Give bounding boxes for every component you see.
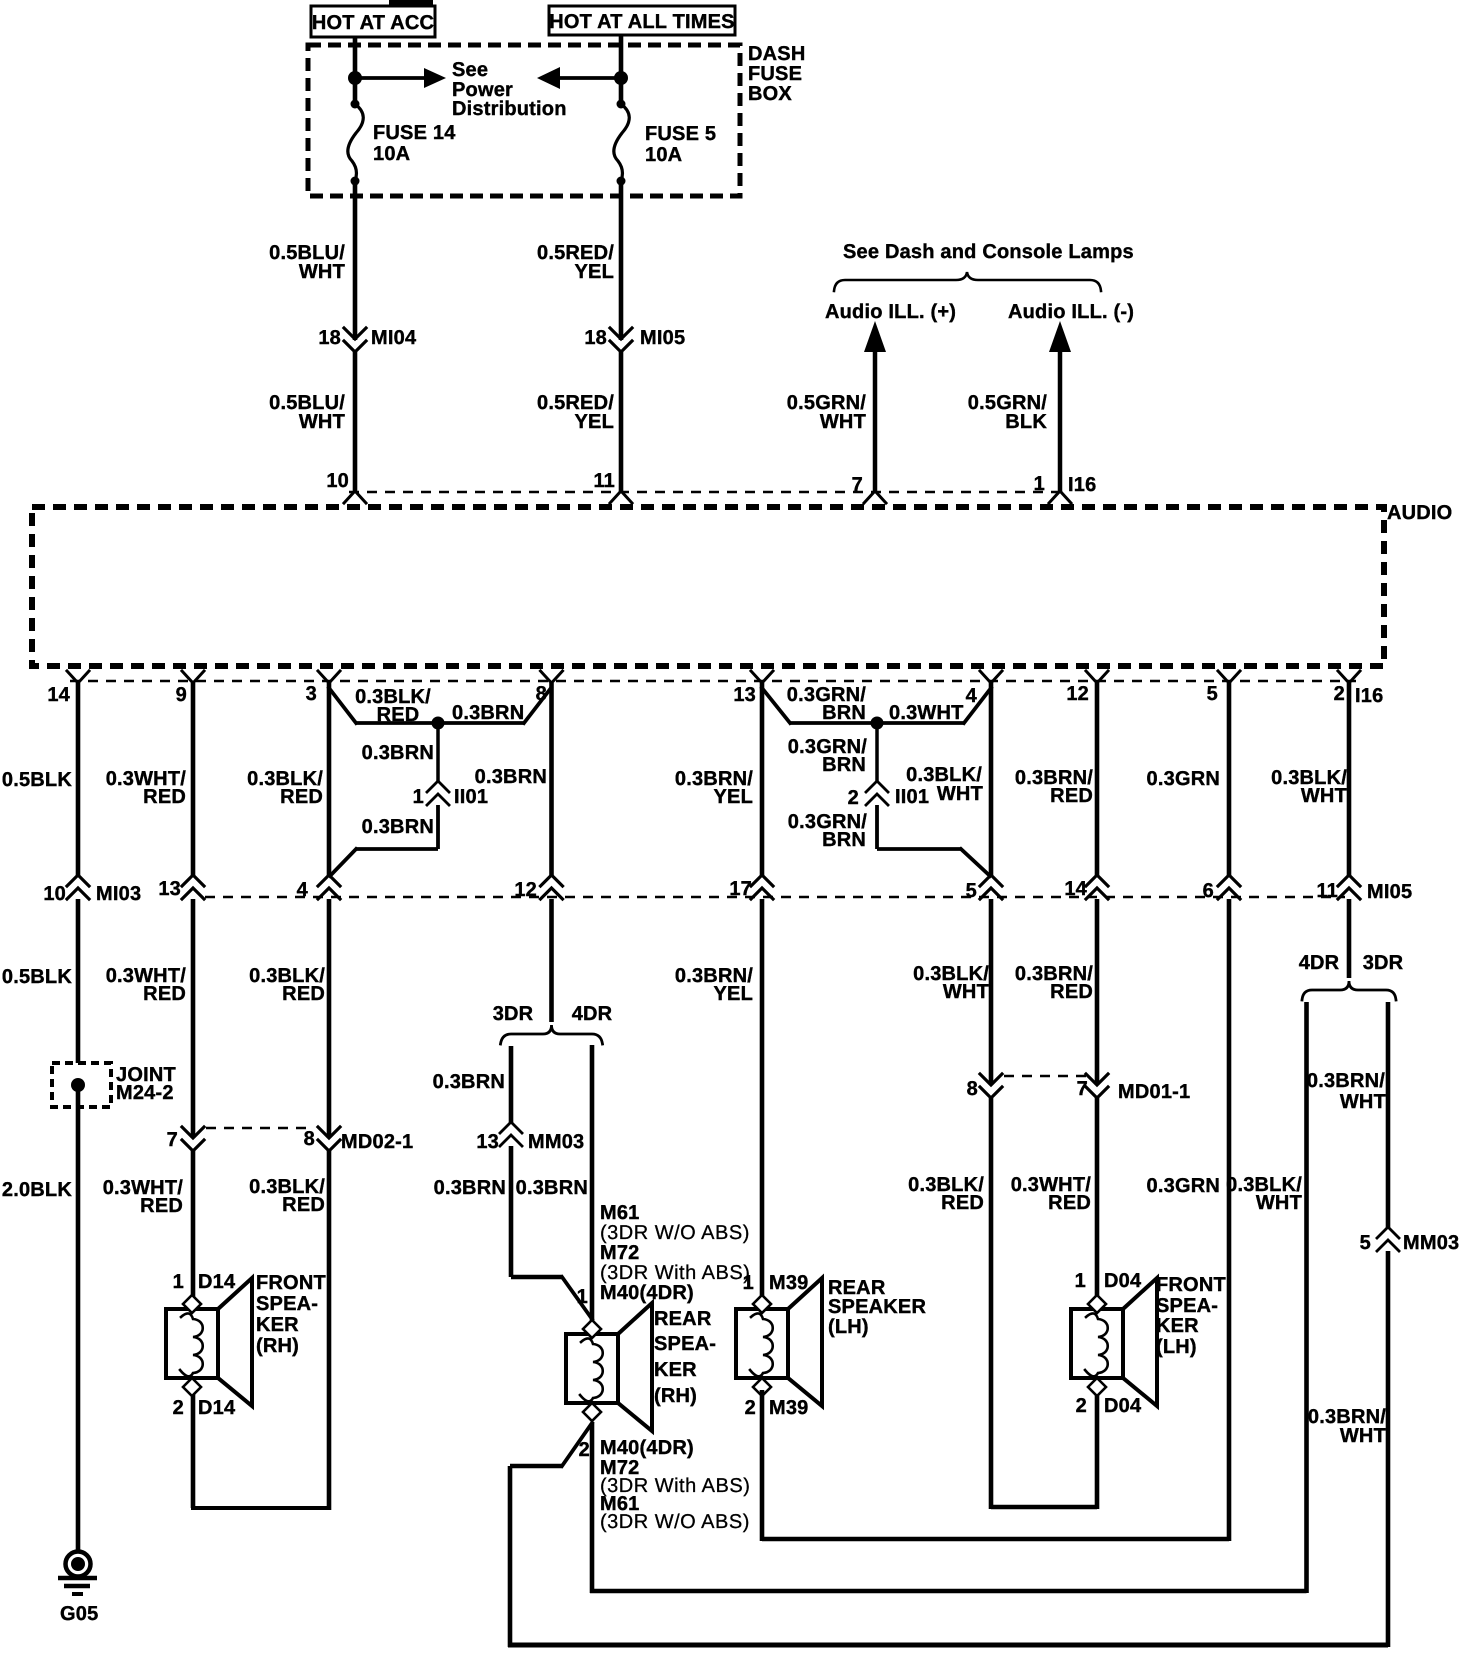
- audio pin 9 connector: [182, 671, 204, 683]
- wire audio pin3 to connector 4: [327, 683, 332, 876]
- power source box HOT AT ACC: [311, 6, 435, 37]
- wire II01 pin2 return to pin5: [875, 805, 879, 849]
- wire audio pin5 to connector 6: [1227, 683, 1232, 876]
- svg-text:(3DR W/O ABS): (3DR W/O ABS): [600, 1511, 750, 1533]
- audio pin 4 connector: [980, 671, 1002, 683]
- scan artifact above HOT AT ACC box: [389, 0, 433, 6]
- connector pin 17: [751, 875, 773, 886]
- wire 4 to MD02-1 pin8: [327, 899, 332, 1138]
- svg-text:12: 12: [1066, 683, 1089, 705]
- wire MI05 to audio unit pin 11: [619, 352, 624, 492]
- svg-text:SPEA-: SPEA-: [256, 1293, 318, 1315]
- wire audio pin14 to MI03: [76, 683, 81, 876]
- wire 13 to MD02-1 pin7: [191, 899, 196, 1138]
- svg-text:M39: M39: [769, 1272, 809, 1294]
- audio pin 3 connector: [318, 671, 340, 683]
- svg-text:WHT: WHT: [299, 261, 345, 283]
- speaker M61/M72/M40 rear speaker RH: [618, 1303, 652, 1431]
- svg-text:7: 7: [852, 474, 863, 496]
- svg-text:SPEA-: SPEA-: [654, 1333, 716, 1355]
- audio pin 14 connector: [67, 671, 89, 683]
- wire 12 to 3DR/4DR split: [549, 899, 554, 1022]
- svg-text:YEL: YEL: [714, 983, 754, 1005]
- audio pin 13 connector: [751, 671, 773, 683]
- wire loop to front speaker RH pin2: [191, 1506, 331, 1510]
- dashed pin row at audio top: [349, 491, 1060, 493]
- svg-text:12: 12: [514, 879, 537, 901]
- audio pin 2 connector I16: [1338, 671, 1360, 683]
- connector MD02-1 pin 8: [318, 1127, 340, 1138]
- svg-text:YEL: YEL: [714, 786, 754, 808]
- wire MD01-1 pin7 to front speaker LH pin1: [1095, 1098, 1100, 1297]
- svg-text:13: 13: [733, 684, 756, 706]
- svg-text:2: 2: [1334, 683, 1345, 705]
- svg-text:0.3BRN/: 0.3BRN/: [1307, 1070, 1385, 1092]
- audio unit dashed box: [32, 507, 1384, 666]
- svg-text:I16: I16: [1068, 474, 1096, 496]
- wire joint M24-2 to ground G05: [76, 1085, 81, 1550]
- wire MD01-1 pin8 down to front speaker LH pin2: [989, 1098, 994, 1509]
- svg-text:I16: I16: [1355, 685, 1383, 707]
- connector pin 12: [541, 875, 563, 886]
- svg-text:(LH): (LH): [828, 1316, 869, 1338]
- connector pin 14: [1086, 875, 1108, 886]
- svg-text:RED: RED: [1050, 785, 1093, 807]
- audio pin 5 connector: [1218, 671, 1240, 683]
- wire audio pin12 to connector 14: [1095, 683, 1100, 876]
- svg-text:WHT: WHT: [937, 783, 983, 805]
- svg-text:0.3GRN: 0.3GRN: [1147, 1175, 1220, 1197]
- svg-text:KER: KER: [1156, 1315, 1199, 1337]
- svg-text:0.3GRN: 0.3GRN: [1147, 768, 1220, 790]
- svg-text:MI04: MI04: [371, 327, 417, 349]
- svg-text:MM03: MM03: [1403, 1232, 1459, 1254]
- svg-text:18: 18: [584, 327, 607, 349]
- svg-text:5: 5: [966, 880, 977, 902]
- svg-text:FRONT: FRONT: [256, 1272, 326, 1294]
- svg-text:WHT: WHT: [1340, 1091, 1386, 1113]
- wire MM03 pin5 down: [1386, 1251, 1391, 1647]
- svg-text:Audio ILL. (+): Audio ILL. (+): [825, 301, 956, 323]
- wire audio pin9 to connector 13: [191, 683, 196, 876]
- svg-text:RED: RED: [143, 983, 186, 1005]
- svg-text:WHT: WHT: [820, 411, 866, 433]
- svg-text:WHT: WHT: [1301, 785, 1347, 807]
- svg-text:13: 13: [158, 878, 181, 900]
- wire MD02-1 pin7 to front speaker RH pin1: [191, 1151, 196, 1297]
- svg-text:HOT AT ACC: HOT AT ACC: [312, 12, 434, 34]
- wire II01 pin1 return to pin4: [436, 805, 440, 849]
- svg-text:(LH): (LH): [1156, 1336, 1197, 1358]
- junction on battery feed: [614, 71, 628, 85]
- svg-text:0.3BRN: 0.3BRN: [433, 1071, 505, 1093]
- svg-text:(RH): (RH): [654, 1385, 697, 1407]
- wire 4DR branch to rear speaker RH pin1: [590, 1045, 595, 1322]
- svg-text:10: 10: [326, 470, 349, 492]
- connector MM03 pin 13: [500, 1122, 522, 1133]
- dashed connector row: [205, 896, 1345, 898]
- svg-text:14: 14: [47, 684, 70, 706]
- svg-text:1: 1: [743, 1272, 754, 1294]
- svg-text:1: 1: [1034, 473, 1045, 495]
- svg-text:2.0BLK: 2.0BLK: [2, 1179, 72, 1201]
- svg-text:KER: KER: [256, 1314, 299, 1336]
- svg-text:BLK: BLK: [1005, 411, 1047, 433]
- audio pin 8 connector: [541, 671, 563, 683]
- svg-text:18: 18: [318, 327, 341, 349]
- svg-text:RED: RED: [282, 983, 325, 1005]
- svg-text:4DR: 4DR: [1299, 952, 1340, 974]
- svg-text:D04: D04: [1104, 1395, 1142, 1417]
- wire MM03 pin13 to rear speaker RH pin1: [509, 1146, 514, 1277]
- svg-text:1: 1: [577, 1286, 588, 1308]
- svg-text:D04: D04: [1104, 1270, 1142, 1292]
- svg-text:AUDIO: AUDIO: [1387, 502, 1452, 524]
- svg-text:RED: RED: [1050, 981, 1093, 1003]
- wire from HOT AT ACC down to fuse 14: [353, 36, 358, 104]
- wire 17 to rear speaker LH pin1: [760, 899, 765, 1297]
- svg-text:KER: KER: [654, 1359, 697, 1381]
- wire rear speaker RH pin2 4DR return: [590, 1423, 595, 1593]
- svg-text:0.3BRN: 0.3BRN: [362, 816, 434, 838]
- svg-text:10A: 10A: [645, 144, 682, 166]
- svg-text:BRN: BRN: [822, 702, 866, 724]
- wire 3DR bottom run: [508, 1643, 1388, 1648]
- svg-text:FUSE 5: FUSE 5: [645, 123, 716, 145]
- svg-text:BOX: BOX: [748, 83, 792, 105]
- wire from HOT AT ALL TIMES down to fuse 5: [619, 34, 624, 104]
- connector MI04 pin 18: [344, 328, 366, 339]
- svg-text:2: 2: [173, 1397, 184, 1419]
- wire MI03 to joint M24-2: [76, 899, 81, 1063]
- svg-text:8: 8: [304, 1128, 315, 1150]
- svg-text:SPEA-: SPEA-: [1156, 1295, 1218, 1317]
- svg-text:RED: RED: [280, 786, 323, 808]
- svg-text:D14: D14: [198, 1271, 236, 1293]
- wire 6 down to rear speaker LH return: [1227, 899, 1232, 1541]
- svg-text:See Dash and Console Lamps: See Dash and Console Lamps: [843, 241, 1134, 263]
- wire MI05 to 4DR/3DR split: [1347, 899, 1352, 978]
- wire MI04 to audio unit pin 10: [353, 352, 358, 492]
- svg-text:8: 8: [967, 1078, 978, 1100]
- fuse F5 element: [617, 100, 626, 109]
- connector pin 13: [182, 875, 204, 886]
- connector MI05 pin 11: [1338, 875, 1360, 886]
- svg-text:0.3BRN: 0.3BRN: [362, 742, 434, 764]
- svg-text:0.3BRN: 0.3BRN: [516, 1177, 588, 1199]
- svg-text:9: 9: [176, 684, 187, 706]
- ground G05 symbol: [66, 1552, 91, 1577]
- svg-text:17: 17: [729, 878, 752, 900]
- svg-text:RED: RED: [941, 1192, 984, 1214]
- wire rear speaker LH pin2 to pin6 column: [760, 1390, 765, 1541]
- svg-text:YEL: YEL: [575, 261, 615, 283]
- svg-text:0.3BRN: 0.3BRN: [434, 1177, 506, 1199]
- fuse F14 element: [351, 100, 360, 109]
- joint M24-2 dashed box: [52, 1063, 111, 1107]
- svg-text:RED: RED: [1048, 1192, 1091, 1214]
- branch pin4 to II01 junction: [964, 688, 991, 723]
- svg-text:M39: M39: [769, 1397, 809, 1419]
- svg-text:0.3BRN: 0.3BRN: [475, 766, 547, 788]
- connector MD01-1 pin 8: [980, 1074, 1002, 1085]
- svg-text:II01: II01: [454, 786, 488, 808]
- brace 4DR/3DR split: [1302, 981, 1396, 1000]
- svg-text:1: 1: [413, 786, 424, 808]
- svg-text:(3DR W/O ABS): (3DR W/O ABS): [600, 1222, 750, 1244]
- connector pin 5: [980, 875, 1002, 886]
- svg-text:FUSE: FUSE: [748, 63, 802, 85]
- svg-text:4: 4: [966, 685, 978, 707]
- svg-text:FRONT: FRONT: [1156, 1274, 1226, 1296]
- connector pin 6: [1218, 875, 1240, 886]
- svg-text:SPEAKER: SPEAKER: [828, 1296, 926, 1318]
- svg-text:5: 5: [1207, 683, 1218, 705]
- arrow up Audio ILL. (+): [864, 321, 886, 352]
- audio pin 10 connector: [344, 491, 366, 503]
- wire junction to II01 pin2: [875, 723, 879, 782]
- svg-text:11: 11: [1316, 880, 1338, 902]
- svg-text:4: 4: [297, 879, 309, 901]
- svg-text:4DR: 4DR: [572, 1003, 613, 1025]
- svg-text:10A: 10A: [373, 143, 410, 165]
- svg-text:HOT AT ALL TIMES: HOT AT ALL TIMES: [549, 11, 734, 33]
- svg-text:MI03: MI03: [96, 883, 141, 905]
- svg-text:G05: G05: [60, 1603, 98, 1625]
- branch pin3 to II01 junction: [329, 688, 356, 723]
- wire junction to II01 pin1: [436, 723, 440, 782]
- power source box HOT AT ALL TIMES: [549, 6, 735, 35]
- audio pin 7 connector: [864, 491, 886, 503]
- wire 5 to MD01-1 pin8: [989, 899, 994, 1085]
- connector MI03 pin 10: [67, 875, 89, 886]
- svg-text:(3DR With ABS): (3DR With ABS): [600, 1262, 750, 1284]
- wire fuse 5 to connector MI05: [619, 181, 624, 340]
- wire MD02-1 pin8 down: [327, 1151, 332, 1510]
- audio pin 12 connector: [1086, 671, 1108, 683]
- svg-text:Distribution: Distribution: [452, 98, 567, 120]
- svg-text:7: 7: [167, 1129, 178, 1151]
- branch pin13 to II01 junction: [762, 688, 790, 723]
- connector II01 pin 2: [866, 781, 888, 792]
- svg-text:M61: M61: [600, 1202, 640, 1224]
- wire 3DR branch to MM03 pin5: [1386, 1002, 1391, 1228]
- svg-text:5: 5: [1360, 1232, 1371, 1254]
- wire 4DR branch down: [1304, 1002, 1309, 1593]
- svg-text:II01: II01: [895, 786, 929, 808]
- svg-text:14: 14: [1064, 878, 1087, 900]
- svg-text:MD01-1: MD01-1: [1118, 1081, 1190, 1103]
- svg-text:Audio ILL. (-): Audio ILL. (-): [1008, 301, 1134, 323]
- svg-text:2: 2: [1076, 1395, 1087, 1417]
- svg-text:10: 10: [43, 883, 66, 905]
- svg-text:MD02-1: MD02-1: [341, 1131, 413, 1153]
- svg-text:0.5BLK: 0.5BLK: [2, 769, 72, 791]
- svg-text:WHT: WHT: [1256, 1192, 1302, 1214]
- dash fuse box dashed outline: [308, 45, 740, 196]
- connector MD02-1 pin 7: [182, 1127, 204, 1138]
- joint M24-2 node: [71, 1078, 85, 1092]
- audio pin 1 connector I16: [1049, 491, 1071, 503]
- junction at II01 branch: [432, 717, 445, 730]
- wire audio pin4 to connector 5: [989, 683, 994, 876]
- svg-text:MM03: MM03: [528, 1131, 584, 1153]
- svg-text:WHT: WHT: [299, 411, 345, 433]
- svg-text:See: See: [452, 59, 488, 81]
- svg-text:YEL: YEL: [575, 411, 615, 433]
- svg-text:7: 7: [1077, 1078, 1088, 1100]
- svg-text:2: 2: [848, 787, 859, 809]
- svg-text:1: 1: [1075, 1270, 1086, 1292]
- svg-text:1: 1: [173, 1271, 184, 1293]
- svg-text:WHT: WHT: [943, 981, 989, 1003]
- connector MI05 pin 18: [610, 328, 632, 339]
- dashed link MD01-1: [1004, 1075, 1086, 1077]
- svg-text:13: 13: [476, 1131, 499, 1153]
- svg-text:MI05: MI05: [640, 327, 685, 349]
- svg-text:M72: M72: [600, 1242, 640, 1264]
- wire audio pin8 to connector 12: [549, 683, 554, 876]
- dashed link MD02-1: [206, 1127, 313, 1129]
- arrow to See Power Distribution (right): [355, 76, 424, 80]
- wire rear speaker RH pin2 3DR return: [562, 1423, 592, 1466]
- wire audio pin2 to MI05: [1347, 683, 1352, 876]
- dashed pin row at audio bottom: [70, 680, 1356, 682]
- wire 3DR branch to MM03: [509, 1046, 514, 1123]
- svg-text:0.5BLK: 0.5BLK: [2, 966, 72, 988]
- brace 3DR/4DR split: [501, 1025, 603, 1044]
- svg-text:M40(4DR): M40(4DR): [600, 1282, 694, 1304]
- svg-text:0.3BRN: 0.3BRN: [452, 702, 524, 724]
- connector MM03 pin 5: [1377, 1227, 1399, 1238]
- audio pin 11 connector: [610, 491, 632, 503]
- svg-text:3DR: 3DR: [493, 1003, 534, 1025]
- svg-text:FUSE 14: FUSE 14: [373, 122, 456, 144]
- svg-text:REAR: REAR: [654, 1308, 712, 1330]
- svg-text:(RH): (RH): [256, 1335, 299, 1357]
- arrow up Audio ILL. (-): [1049, 321, 1071, 352]
- connector MD01-1 pin 7: [1086, 1074, 1108, 1085]
- svg-text:BRN: BRN: [822, 754, 866, 776]
- svg-text:D14: D14: [198, 1397, 236, 1419]
- arrow to See Power Distribution (left): [560, 76, 621, 80]
- svg-text:M24-2: M24-2: [116, 1082, 174, 1104]
- svg-text:3: 3: [306, 683, 317, 705]
- speaker D04 front speaker LH: [1123, 1278, 1157, 1406]
- speaker D14 front speaker RH: [218, 1278, 252, 1406]
- svg-text:6: 6: [1203, 880, 1214, 902]
- junction at II01 pin2 branch: [871, 717, 884, 730]
- brace over illumination wires: [834, 272, 1101, 291]
- svg-text:RED: RED: [282, 1194, 325, 1216]
- wire 14 to MD01-1 pin7: [1095, 899, 1100, 1085]
- svg-text:MI05: MI05: [1367, 881, 1412, 903]
- svg-text:RED: RED: [140, 1195, 183, 1217]
- svg-text:RED: RED: [377, 704, 420, 726]
- svg-text:3DR: 3DR: [1363, 952, 1404, 974]
- svg-text:WHT: WHT: [1340, 1425, 1386, 1447]
- wire audio pin13 to connector 17: [760, 683, 765, 876]
- connector II01 pin 1: [427, 781, 449, 792]
- wire fuse 14 to connector MI04: [353, 181, 358, 340]
- svg-text:RED: RED: [143, 786, 186, 808]
- svg-text:BRN: BRN: [822, 829, 866, 851]
- svg-text:M40(4DR): M40(4DR): [600, 1437, 694, 1459]
- svg-text:0.3WHT: 0.3WHT: [889, 702, 964, 724]
- wire 4DR bottom run: [590, 1589, 1307, 1594]
- svg-text:11: 11: [593, 470, 615, 492]
- svg-text:2: 2: [745, 1397, 756, 1419]
- junction on ACC feed: [348, 71, 362, 85]
- connector pin 4: [318, 875, 340, 886]
- svg-text:DASH: DASH: [748, 43, 805, 65]
- speaker M39 rear speaker LH: [788, 1278, 822, 1406]
